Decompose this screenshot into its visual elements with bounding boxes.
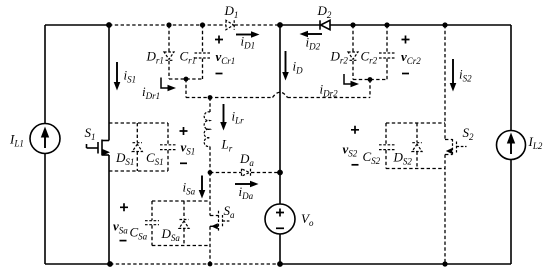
arrow i_Sa: [199, 176, 206, 199]
label i_Dr1: [142, 84, 160, 101]
wire bottom-right: [280, 263, 511, 265]
node dot B (Vo rail top): [277, 22, 283, 28]
label i_D: [293, 59, 304, 76]
current source I_L1: [30, 124, 60, 154]
wire C_r1 branch bottom: [202, 59, 204, 80]
node dot L_r bottom: [208, 170, 213, 175]
label D_a: [239, 151, 254, 168]
transistor S_a: [210, 211, 230, 231]
wire S_a source: [209, 226, 211, 264]
wire top dashed (D1 to node B): [235, 24, 281, 26]
diode D_Sa: [179, 220, 189, 229]
wire right rail upper: [510, 25, 512, 131]
arrow i_D: [282, 51, 289, 81]
arrow i_Dr2: [344, 74, 359, 87]
label L_r: [221, 137, 233, 154]
svg-text:vCr1: vCr1: [216, 49, 236, 66]
arrow i_D1: [236, 31, 260, 38]
node dot L_r top: [208, 95, 213, 100]
wire left rail lower: [44, 154, 46, 265]
snubber box D_S1/C_S1 top: [109, 122, 168, 124]
wire S1 rail lower: [108, 155, 110, 264]
snubber box C_Sa/D_Sa top: [152, 200, 210, 202]
snubber box C_S2/D_S2 bottom: [386, 168, 445, 170]
label v_S2: [343, 142, 358, 159]
diode D_a: [242, 169, 251, 176]
svg-text:IL1: IL1: [9, 132, 24, 149]
node dot S2 rail bottom: [442, 261, 447, 266]
wire D_r2/C_r2 junction: [353, 79, 387, 81]
diode D1: [226, 20, 234, 29]
label v_S1: [181, 140, 196, 157]
label C_Sa: [130, 225, 148, 242]
wire S_a drain: [209, 173, 211, 216]
diode D_S2 lead top: [416, 123, 418, 142]
label D2: [317, 3, 332, 20]
snubber box D_S1/C_S1 bottom: [109, 170, 168, 172]
label C_r2: [361, 48, 378, 65]
wire S2 rail lower: [444, 155, 446, 265]
svg-text:S1: S1: [85, 125, 96, 142]
node dot Dr2-Cr2: [368, 77, 373, 82]
arrow i_Da: [235, 181, 259, 188]
svg-text:iD2: iD2: [306, 35, 321, 52]
label v_Sa plus: [120, 203, 128, 211]
svg-text:iD: iD: [293, 59, 304, 76]
label v_S2 minus: [352, 164, 359, 166]
diode D_Sa lead top: [183, 201, 185, 219]
svg-text:vS2: vS2: [343, 142, 358, 159]
diode D_r2: [348, 52, 358, 60]
label C_r1: [180, 48, 197, 65]
wire C_r1 branch top: [202, 25, 204, 53]
label v_Sa minus: [120, 240, 127, 242]
svg-text:Da: Da: [239, 151, 254, 168]
wire resonant link right: [288, 97, 371, 99]
wire D_a cathode: [251, 172, 280, 174]
arrow i_S2: [450, 59, 457, 92]
transistor S1: [87, 140, 111, 156]
node dot D_r1 top: [166, 22, 171, 27]
label v_S1 plus: [180, 127, 188, 135]
snubber box C_S2/D_S2 top: [386, 122, 445, 124]
transistor S2: [445, 139, 467, 155]
svg-text:DSa: DSa: [161, 226, 181, 243]
diode D_r1: [164, 52, 174, 60]
svg-text:Sa: Sa: [224, 203, 236, 220]
wire top dashed (S1 rail to D1): [109, 24, 226, 26]
svg-text:iS2: iS2: [459, 67, 472, 84]
svg-text:vS1: vS1: [181, 140, 196, 157]
label S_a: [224, 203, 236, 220]
diode D_S1: [132, 143, 142, 152]
wire D_r2 branch top: [352, 25, 354, 52]
wire C_r2 branch bottom: [386, 59, 388, 80]
svg-text:DS2: DS2: [393, 150, 413, 167]
wire L_r branch bottom: [209, 147, 211, 173]
label C_S1: [146, 150, 164, 167]
capacitor C_S1 lower lead: [167, 150, 169, 171]
node dot S1 rail bottom: [107, 261, 113, 267]
label i_D1: [241, 33, 256, 50]
diode D_S1 lead top: [136, 123, 138, 142]
svg-text:Dr1: Dr1: [146, 48, 164, 65]
wire S1 rail upper: [108, 25, 110, 141]
svg-text:Cr2: Cr2: [361, 48, 378, 65]
wire D_r1 branch bottom: [168, 61, 170, 79]
arrow i_Lr: [220, 104, 227, 131]
wire left rail upper: [44, 25, 46, 124]
label v_Cr1 plus: [215, 36, 223, 44]
current source I_L2: [497, 131, 526, 160]
label i_S2: [459, 67, 472, 84]
wire D_r2 branch bottom: [352, 61, 354, 80]
capacitor C_S2: [379, 145, 395, 150]
wire D_a anode: [210, 172, 242, 174]
svg-text:DS1: DS1: [115, 150, 134, 167]
label V_o: [301, 211, 314, 228]
label I_L1: [9, 132, 24, 149]
label v_S2 plus: [351, 126, 359, 134]
capacitor C_S1 upper lead: [167, 123, 169, 144]
label v_Cr1 minus: [216, 73, 223, 75]
wire hop over Vo rail: [273, 92, 288, 97]
label v_Cr2: [401, 49, 421, 66]
svg-text:iSa: iSa: [183, 180, 196, 197]
label S2: [463, 125, 475, 142]
node dot C_r2 top: [384, 22, 389, 27]
wire top-right solid (node B to D2): [280, 24, 320, 26]
label C_S2: [363, 149, 381, 166]
node dot C_r1 top: [200, 22, 205, 27]
label i_D2: [306, 35, 321, 52]
svg-text:vSa: vSa: [113, 219, 128, 236]
label D1: [224, 3, 239, 20]
node dot S2 rail top: [442, 22, 447, 27]
svg-text:CS2: CS2: [363, 149, 381, 166]
node dot D_a to Vo rail: [277, 170, 283, 176]
wire junction down: [185, 79, 187, 98]
label D_S2: [393, 150, 413, 167]
capacitor C_r1: [195, 53, 211, 58]
voltage source V_o: [265, 204, 295, 234]
inductor L_r: [204, 112, 210, 147]
diode D_S1 lead bottom: [136, 152, 138, 172]
label D_r1: [146, 48, 164, 65]
wire junction down right: [369, 80, 371, 98]
label v_Cr2 minus: [402, 73, 409, 75]
label D_r2: [330, 48, 349, 65]
node dot S_a source bottom: [208, 262, 213, 267]
svg-text:S2: S2: [463, 125, 475, 142]
capacitor C_S2 lower lead: [385, 150, 387, 168]
wire D_r1 branch top: [168, 25, 170, 52]
label v_Cr2 plus: [402, 36, 410, 44]
svg-text:iS1: iS1: [124, 68, 137, 85]
wire D_r1/C_r1 junction: [169, 78, 203, 80]
label i_S1: [124, 68, 137, 85]
wire L_r branch top: [209, 98, 211, 113]
label D_Sa: [161, 226, 181, 243]
svg-text:D1: D1: [224, 3, 239, 20]
wire S2 rail upper: [444, 25, 446, 140]
wire top-right solid (D2 to I_L2): [330, 24, 511, 26]
wire C_r2 branch top: [386, 25, 388, 53]
label v_S1 minus: [180, 162, 187, 164]
svg-text:Cr1: Cr1: [180, 48, 197, 65]
node dot S1 rail top: [106, 22, 112, 28]
label i_Sa: [183, 180, 196, 197]
snubber box C_Sa/D_Sa bottom: [152, 245, 210, 247]
label i_Da: [239, 184, 254, 201]
label v_Cr1: [216, 49, 236, 66]
node dot D_r2 top: [350, 22, 355, 27]
wire Vo rail lower: [279, 234, 281, 264]
diode D_S2: [412, 143, 422, 152]
label D_S1: [115, 150, 134, 167]
label i_Lr: [232, 109, 245, 126]
diode D_S2 lead bottom: [416, 152, 418, 169]
wire bottom-left: [45, 263, 110, 265]
arrow i_D2: [300, 31, 323, 38]
arrow i_S1: [114, 62, 121, 91]
svg-text:Vo: Vo: [301, 211, 314, 228]
capacitor C_Sa: [145, 221, 159, 225]
svg-text:Dr2: Dr2: [330, 48, 349, 65]
capacitor C_Sa lower lead: [151, 225, 153, 245]
svg-text:D2: D2: [317, 3, 332, 20]
label v_Sa: [113, 219, 128, 236]
diode D2: [320, 20, 330, 29]
node dot Dr1-Cr1: [184, 77, 189, 82]
capacitor C_r2: [379, 53, 395, 58]
svg-text:iDr1: iDr1: [142, 84, 160, 101]
svg-text:CSa: CSa: [130, 225, 148, 242]
svg-text:Lr: Lr: [221, 137, 233, 154]
arrow i_Dr1: [161, 78, 176, 92]
svg-text:iLr: iLr: [232, 109, 245, 126]
svg-text:CS1: CS1: [146, 150, 164, 167]
svg-text:iDr2: iDr2: [320, 82, 339, 99]
svg-text:vCr2: vCr2: [401, 49, 421, 66]
capacitor C_S2 upper lead: [385, 123, 387, 144]
wire resonant link left: [186, 97, 273, 99]
wire Vo rail upper: [279, 25, 281, 204]
capacitor C_S1: [160, 145, 177, 150]
node dot Vo rail bottom: [277, 261, 283, 267]
label i_Dr2: [320, 82, 339, 99]
svg-text:IL2: IL2: [528, 134, 543, 151]
label I_L2: [528, 134, 543, 151]
wire bottom bus dashed: [110, 263, 280, 265]
capacitor C_Sa upper lead: [151, 201, 153, 220]
label S1: [85, 125, 96, 142]
wire top-left (I_L1 top to S1 rail): [45, 24, 109, 26]
diode D_Sa lead bottom: [183, 228, 185, 245]
wire right rail lower: [510, 160, 512, 265]
